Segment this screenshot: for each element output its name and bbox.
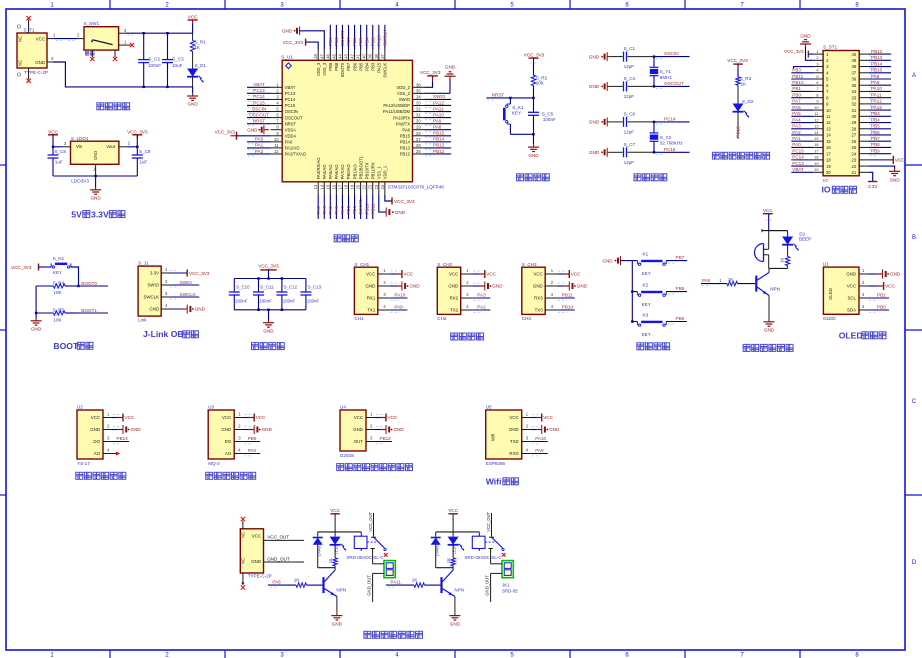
capacitor S_C9 1uF	[132, 147, 151, 176]
wire power bottom rail	[47, 56, 193, 88]
display U1 OLED	[823, 262, 868, 322]
svg-text:TX2: TX2	[450, 308, 459, 313]
wire LDO Vin	[53, 141, 71, 147]
svg-text:PB11: PB11	[792, 74, 803, 79]
net label VCC_OUT	[264, 535, 305, 541]
svg-text:Vout: Vout	[106, 144, 116, 149]
svg-text:48: 48	[313, 53, 318, 58]
net label PA0	[243, 448, 260, 456]
svg-text:S_C8: S_C8	[55, 149, 67, 154]
svg-text:7: 7	[816, 86, 818, 91]
svg-text:8MHz: 8MHz	[660, 75, 673, 80]
svg-text:S_R4: S_R4	[53, 280, 65, 285]
svg-text:17: 17	[826, 151, 831, 156]
wire relay top rail	[318, 531, 362, 533]
svg-text:25: 25	[852, 145, 857, 150]
svg-text:1K: 1K	[446, 558, 451, 563]
ground GND filter	[263, 320, 274, 334]
svg-text:GND: GND	[509, 427, 519, 432]
no-connect pin S_SW1 pin1	[119, 40, 135, 48]
svg-text:PA5: PA5	[328, 206, 333, 215]
svg-text:PB1/AO: PB1/AO	[352, 163, 357, 179]
svg-text:40: 40	[362, 53, 367, 58]
svg-text:VSS_1: VSS_1	[377, 166, 382, 180]
svg-text:OLED: OLED	[839, 330, 863, 340]
svg-text:JK1: JK1	[502, 583, 510, 588]
svg-text:PA3: PA3	[316, 206, 321, 215]
svg-text:16: 16	[331, 184, 336, 189]
svg-text:VCC_3V3: VCC_3V3	[524, 53, 545, 58]
regulator S_LDO1 LDO3V3	[71, 136, 119, 184]
svg-text:21: 21	[852, 170, 857, 175]
svg-text:TYPE-C-2P: TYPE-C-2P	[248, 574, 272, 579]
svg-text:S_C2: S_C2	[148, 57, 160, 62]
svg-text:37: 37	[852, 70, 857, 75]
svg-text:1K: 1K	[412, 578, 419, 583]
power VCC U2	[112, 414, 135, 422]
module U5 ESP8266	[486, 405, 531, 467]
svg-text:36: 36	[416, 82, 421, 87]
svg-text:PB14: PB14	[433, 137, 445, 142]
ground GND S_CH3	[557, 282, 588, 291]
svg-text:33: 33	[852, 95, 857, 100]
svg-text:VCC: VCC	[885, 284, 895, 289]
MCU bottom pin numbers and stubs	[313, 182, 385, 195]
svg-text:NRST: NRST	[492, 92, 505, 97]
resistor relay base 1K	[412, 578, 441, 588]
svg-text:PC15: PC15	[285, 103, 296, 108]
svg-text:PA0: PA0	[285, 140, 293, 145]
connector JK screw terminal	[367, 549, 396, 603]
capacitor S_C3 10uF	[162, 33, 184, 87]
svg-text:40: 40	[852, 52, 857, 57]
svg-text:VCC: VCC	[366, 272, 375, 277]
title 主芯片	[334, 235, 358, 242]
title 晶振电路	[634, 174, 667, 181]
svg-text:PC14: PC14	[792, 155, 804, 160]
net label SWCLK	[161, 291, 199, 299]
svg-text:VCC_3V3: VCC_3V3	[283, 40, 304, 45]
svg-text:B: B	[912, 235, 916, 241]
svg-text:PB6: PB6	[248, 436, 257, 441]
svg-text:LDO3V3: LDO3V3	[71, 179, 89, 184]
net label PB10	[557, 305, 575, 313]
ground GND S_C1	[589, 52, 610, 61]
svg-text:VCC_3V3: VCC_3V3	[784, 49, 804, 54]
svg-text:TXD: TXD	[510, 439, 519, 444]
power VCC relay driver	[448, 508, 458, 532]
svg-text:VSSA: VSSA	[285, 127, 296, 132]
net label PA11 relay base	[386, 580, 414, 588]
power GND MCU VSSA pin8	[247, 125, 269, 134]
svg-text:OSCIN: OSCIN	[285, 109, 298, 114]
svg-text:1K: 1K	[294, 578, 301, 583]
svg-text:16: 16	[826, 145, 831, 150]
MCU S_U1 STM32F103C8T6_LQFP48	[281, 55, 444, 190]
svg-text:39: 39	[852, 58, 857, 63]
svg-text:NPN: NPN	[454, 588, 464, 593]
svg-text:PC15: PC15	[792, 148, 804, 153]
svg-text:PA9: PA9	[871, 80, 880, 85]
svg-text:100nF: 100nF	[283, 298, 296, 303]
svg-text:PA8: PA8	[871, 74, 880, 79]
svg-text:VCC: VCC	[448, 508, 458, 513]
svg-text:3.3V: 3.3V	[868, 184, 878, 189]
capacitor S_C7 12pF	[610, 142, 654, 165]
wire alarm collector node	[769, 268, 788, 272]
svg-text:PA6: PA6	[334, 206, 339, 215]
svg-text:PA1: PA1	[255, 143, 264, 148]
svg-text:VCC: VCC	[91, 415, 100, 420]
ground GND reset	[528, 144, 539, 158]
connector JK screw terminal	[485, 549, 514, 603]
resistor relay 1K	[446, 558, 455, 568]
svg-text:PB12: PB12	[433, 149, 445, 154]
svg-text:100nF: 100nF	[148, 63, 161, 68]
relay switch contacts	[485, 511, 506, 556]
MCU left pin numbers and stubs	[271, 82, 283, 154]
title 声光报警电路	[743, 344, 793, 351]
svg-text:KEY: KEY	[53, 270, 62, 275]
svg-text:13: 13	[826, 126, 831, 131]
ground GND header pin22	[869, 166, 901, 182]
svg-text:GND: GND	[187, 102, 198, 107]
wire relay bottom rail to collector	[436, 568, 453, 570]
wire key to BOOT0 node	[71, 267, 80, 287]
svg-text:PB9: PB9	[328, 37, 333, 46]
svg-text:35: 35	[852, 83, 857, 88]
svg-text:VCC_3V3: VCC_3V3	[727, 58, 748, 63]
svg-text:BOOT0: BOOT0	[340, 30, 345, 46]
ground GND MCU VSS_2	[424, 64, 456, 93]
svg-text:PB13: PB13	[871, 55, 883, 60]
svg-text:22: 22	[368, 184, 373, 189]
wire filter bottom rail	[234, 309, 306, 320]
svg-text:IO: IO	[823, 178, 828, 183]
svg-text:PA2: PA2	[792, 130, 801, 135]
svg-text:VDD_1: VDD_1	[383, 165, 388, 179]
title BOOT电路	[53, 341, 93, 351]
svg-text:PB10: PB10	[792, 80, 804, 85]
title 烟雾检测模块	[206, 472, 256, 479]
svg-text:SWCLK: SWCLK	[180, 292, 197, 297]
svg-text:PB3: PB3	[370, 37, 375, 46]
svg-text:15: 15	[814, 136, 818, 141]
svg-text:PB8: PB8	[334, 62, 339, 71]
svg-text:GND: GND	[889, 178, 900, 183]
svg-text:S_C11: S_C11	[260, 285, 274, 290]
svg-text:GND: GND	[589, 120, 600, 125]
svg-text:VCC_3V3: VCC_3V3	[215, 130, 236, 135]
svg-text:14: 14	[826, 133, 831, 138]
svg-text:PA10: PA10	[394, 293, 405, 298]
power VCC_3V3 MCU VDD_3 top	[283, 39, 319, 50]
svg-text:GND: GND	[589, 84, 600, 89]
resistor S_R5 10K	[36, 307, 78, 322]
svg-text:GND: GND	[492, 284, 503, 289]
wire LDO Vout to VCC_3V3	[119, 141, 139, 148]
svg-text:PB1: PB1	[792, 86, 801, 91]
no-connect pin U2	[112, 452, 120, 456]
svg-text:PB6: PB6	[352, 62, 357, 71]
svg-text:12: 12	[826, 120, 831, 125]
svg-text:SWIO: SWIO	[399, 97, 411, 102]
svg-text:SWCLK: SWCLK	[143, 295, 159, 300]
svg-text:TYPE-C-2P: TYPE-C-2P	[24, 70, 48, 75]
svg-text:23: 23	[374, 184, 379, 189]
net label BOOT1	[56, 308, 108, 316]
transistor NPN relay	[440, 570, 464, 597]
svg-text:27: 27	[852, 133, 857, 138]
svg-text:VCC: VCC	[188, 15, 198, 20]
ground GND header pin2	[800, 34, 814, 61]
svg-text:24: 24	[852, 151, 857, 156]
svg-text:VCC: VCC	[543, 415, 553, 420]
header left net labels	[791, 68, 813, 173]
power VCC S_CH2	[473, 270, 497, 278]
svg-text:S_C9: S_C9	[139, 149, 151, 154]
power 3.3V header pin21	[868, 172, 878, 189]
net label PB0 OLED SDA	[868, 305, 889, 313]
svg-text:PB13: PB13	[400, 146, 411, 151]
svg-text:15: 15	[325, 184, 330, 189]
svg-text:CH2: CH2	[437, 316, 447, 321]
svg-text:NC: NC	[241, 532, 246, 538]
svg-text:NC: NC	[241, 558, 246, 564]
svg-text:VCC: VCC	[388, 415, 398, 420]
capacitor S_C12 100nF	[276, 279, 297, 310]
net label PA5 alarm base	[701, 278, 727, 286]
svg-text:SRD-05VDC-SL-C: SRD-05VDC-SL-C	[464, 555, 502, 560]
pushbutton K3 KEY	[632, 312, 666, 337]
svg-text:GND: GND	[445, 64, 456, 69]
svg-text:PA4/AO: PA4/AO	[322, 164, 327, 180]
svg-text:35: 35	[416, 88, 421, 93]
svg-text:YS-17: YS-17	[77, 461, 90, 466]
svg-text:PA8: PA8	[433, 125, 442, 130]
svg-text:S_C7: S_C7	[624, 142, 636, 147]
svg-text:47: 47	[319, 53, 324, 58]
svg-text:S_J1: S_J1	[138, 261, 149, 266]
header left stubs	[814, 49, 824, 172]
svg-text:S_C5: S_C5	[542, 112, 554, 117]
ground GND boot	[31, 318, 42, 332]
svg-text:37: 37	[380, 53, 385, 58]
crystal S_Y2 32.768KHz	[650, 122, 684, 152]
net label PB6	[243, 436, 260, 444]
svg-text:U5: U5	[486, 405, 492, 410]
svg-text:18: 18	[344, 184, 349, 189]
net label PA3	[473, 293, 491, 301]
svg-text:VCC_3V3: VCC_3V3	[127, 129, 148, 134]
svg-text:10K: 10K	[536, 80, 545, 85]
diode 1N4007 flyback	[313, 532, 323, 568]
svg-text:PB15: PB15	[400, 133, 411, 138]
connector S_CH1	[354, 262, 389, 321]
svg-text:44: 44	[337, 53, 342, 58]
svg-text:S_C3: S_C3	[172, 57, 184, 62]
svg-text:U2: U2	[77, 405, 83, 410]
svg-text:36: 36	[852, 77, 857, 82]
svg-text:Wifi: Wifi	[486, 476, 502, 486]
svg-text:PA0: PA0	[792, 142, 801, 147]
svg-text:45: 45	[331, 53, 336, 58]
svg-text:VCC: VCC	[256, 415, 266, 420]
svg-text:PB12: PB12	[400, 152, 411, 157]
resistor alarm base 1K	[727, 277, 755, 286]
svg-text:PB7: PB7	[676, 255, 685, 260]
net label NRST	[486, 92, 534, 100]
wire keys left rail	[631, 261, 633, 323]
power VCC OLED	[868, 282, 895, 290]
svg-text:VCC: VCC	[403, 272, 413, 277]
svg-text:SWIO: SWIO	[147, 283, 159, 288]
svg-text:GND: GND	[247, 127, 258, 132]
buzzer LS1	[755, 231, 769, 269]
svg-text:PA12: PA12	[871, 99, 882, 104]
svg-text:GND: GND	[890, 272, 901, 277]
svg-text:19: 19	[826, 164, 831, 169]
wire alarm emitter to ground	[768, 296, 770, 320]
svg-text:BOOT: BOOT	[53, 341, 79, 351]
svg-text:S_LDO1: S_LDO1	[71, 136, 89, 141]
capacitor S_C13 100nF	[300, 279, 321, 310]
svg-text:BOOT1: BOOT1	[81, 308, 97, 313]
svg-text:MQ-2: MQ-2	[208, 461, 220, 466]
resistor S_R4 10K	[36, 280, 78, 295]
svg-text:16: 16	[814, 142, 818, 147]
label 开关	[85, 52, 94, 56]
svg-text:28: 28	[416, 131, 421, 136]
svg-text:PA8: PA8	[402, 127, 410, 132]
svg-text:NRST: NRST	[253, 118, 266, 123]
resistor relay base 1K	[294, 578, 323, 588]
net label PB1 OLED SCL	[868, 293, 889, 301]
svg-text:PB4: PB4	[871, 117, 880, 122]
capacitor S_C1 12pF	[610, 46, 654, 69]
svg-text:3.3V: 3.3V	[91, 210, 109, 220]
svg-text:U3: U3	[208, 405, 214, 410]
capacitor S_C2 100nF	[138, 33, 161, 87]
net label OSCIN	[653, 51, 690, 59]
svg-text:VCC: VCC	[330, 508, 340, 513]
svg-text:PB1: PB1	[877, 293, 886, 298]
svg-text:SWCLK: SWCLK	[382, 29, 387, 46]
svg-text:PC13: PC13	[253, 88, 265, 93]
svg-text:41: 41	[356, 53, 361, 58]
svg-text:VCC: VCC	[571, 272, 581, 277]
svg-text:PB9: PB9	[676, 316, 685, 321]
svg-text:PB14: PB14	[871, 61, 883, 66]
svg-text:VCC: VCC	[252, 534, 261, 539]
svg-text:S_U1: S_U1	[281, 55, 293, 60]
svg-text:6: 6	[816, 80, 818, 85]
svg-text:RX1: RX1	[367, 296, 376, 301]
svg-text:PA7: PA7	[340, 206, 345, 215]
power VCC_3V3 LDO output	[127, 129, 148, 147]
svg-text:11: 11	[826, 114, 831, 119]
capacitor S_C11 100nF	[253, 279, 274, 310]
svg-text:33: 33	[416, 100, 421, 105]
svg-text:13: 13	[814, 124, 818, 129]
ground GND S_CH1	[390, 282, 421, 291]
svg-text:D: D	[912, 560, 917, 566]
relay coil SRD-05VDC-SL-C	[346, 532, 384, 560]
svg-text:PA11: PA11	[433, 106, 444, 111]
svg-text:GND: GND	[589, 54, 600, 59]
svg-text:10K: 10K	[53, 290, 62, 295]
svg-text:SCL: SCL	[847, 296, 856, 301]
wire relay top rail	[436, 531, 480, 533]
svg-text:OLED: OLED	[823, 316, 836, 321]
title Wifi模块	[486, 476, 519, 486]
svg-text:BOOT1: BOOT1	[358, 198, 363, 214]
svg-text:29: 29	[852, 120, 857, 125]
svg-text:19: 19	[350, 184, 355, 189]
svg-text:12pF: 12pF	[624, 64, 635, 69]
svg-text:PA11: PA11	[390, 580, 401, 585]
svg-text:12pF: 12pF	[624, 129, 635, 134]
svg-text:VSS_2: VSS_2	[397, 91, 411, 96]
svg-text:12: 12	[814, 117, 818, 122]
svg-text:PB9: PB9	[871, 148, 880, 153]
svg-text:PA2/TX/AO: PA2/TX/AO	[285, 152, 307, 157]
svg-text:1K: 1K	[741, 81, 748, 86]
relay coil SRD-05VDC-SL-C	[464, 532, 502, 560]
svg-text:PB7: PB7	[871, 136, 880, 141]
svg-text:VCC: VCC	[354, 415, 363, 420]
svg-text:S_Y1: S_Y1	[660, 69, 672, 74]
svg-text:GND: GND	[251, 559, 261, 564]
svg-text:19: 19	[814, 161, 818, 166]
svg-text:NPN: NPN	[336, 588, 346, 593]
svg-text:11: 11	[274, 143, 279, 148]
svg-text:PB13: PB13	[433, 143, 445, 148]
resistor S_R2 10K	[531, 75, 547, 98]
svg-text:PB11/RX: PB11/RX	[370, 162, 375, 179]
svg-text:PC13: PC13	[285, 91, 296, 96]
svg-text:PA10: PA10	[535, 436, 546, 441]
no-connect pin TYPE-C top	[241, 517, 245, 529]
svg-text:K3: K3	[643, 312, 649, 317]
svg-text:Link: Link	[138, 318, 147, 323]
wire S_SW1 pin3 to VCC rail	[119, 28, 193, 35]
svg-text:VSS_3: VSS_3	[322, 62, 327, 76]
svg-text:12: 12	[274, 149, 279, 154]
svg-text:38: 38	[374, 53, 379, 58]
MCU bottom pin names	[316, 155, 388, 179]
net label PB12	[375, 436, 392, 444]
svg-text:S_C6: S_C6	[624, 112, 636, 117]
svg-text:PA3: PA3	[792, 124, 801, 129]
svg-text:32: 32	[852, 102, 857, 107]
svg-text:31: 31	[852, 108, 857, 113]
svg-text:VCC: VCC	[847, 284, 856, 289]
LED S_D1	[187, 52, 206, 87]
svg-text:PA15: PA15	[377, 62, 382, 73]
svg-text:GND: GND	[394, 427, 405, 432]
pushbutton K2 KEY	[632, 283, 666, 308]
svg-text:PB0/AO: PB0/AO	[346, 163, 351, 179]
title 火焰检测模块	[76, 472, 126, 479]
svg-text:S_R5: S_R5	[53, 307, 65, 312]
power VCC LDO input	[48, 129, 59, 148]
svg-text:PB0: PB0	[346, 205, 351, 214]
wire S_T1 VCC to S_SW1 pin2	[47, 33, 84, 41]
net label GND_OUT	[264, 556, 305, 562]
power VCC_3V3 MCU VDD_1	[385, 195, 415, 205]
svg-text:A: A	[912, 73, 916, 79]
